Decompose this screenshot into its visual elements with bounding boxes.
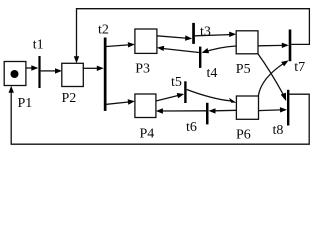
wire P5 to t8 (curved arc down) bbox=[258, 54, 284, 96]
wire t7 feedback to P2 (top loop) bbox=[77, 9, 310, 58]
transition t2 bbox=[104, 38, 107, 111]
svg-text:t8: t8 bbox=[273, 123, 284, 138]
svg-text:t2: t2 bbox=[98, 22, 109, 37]
wire P2 to t2 bbox=[83, 67, 98, 69]
wire P5 to t7 bbox=[258, 44, 283, 46]
wire P3 to t3 bbox=[157, 36, 186, 38]
transition t1 bbox=[38, 56, 40, 88]
svg-text:t3: t3 bbox=[200, 24, 211, 39]
wire t2 to P4 bbox=[107, 102, 129, 104]
wire t3 to P5 bbox=[195, 35, 230, 36]
wire P6 to t7 (curved arc up) bbox=[258, 63, 285, 97]
transition t3 bbox=[192, 23, 195, 44]
svg-text:P6: P6 bbox=[236, 127, 251, 142]
wire P5 to t4 bbox=[203, 46, 236, 52]
place P6 bbox=[236, 96, 258, 119]
wire P6 to t8 bbox=[259, 109, 281, 112]
transition t7 bbox=[289, 30, 292, 62]
wire t2 to P3 bbox=[107, 45, 129, 47]
wire t8 feedback to P1 (bottom loop) bbox=[11, 92, 309, 144]
svg-text:P2: P2 bbox=[62, 91, 77, 106]
transition t5 bbox=[184, 81, 186, 103]
svg-text:t7: t7 bbox=[294, 60, 305, 75]
wire t4 to P3 bbox=[163, 49, 199, 53]
wire P1 to t1 bbox=[26, 67, 33, 69]
svg-text:t6: t6 bbox=[186, 120, 197, 135]
place P1 bbox=[4, 62, 26, 86]
wire P6 to t6 bbox=[215, 109, 237, 112]
wire t6 to P4 bbox=[162, 110, 207, 112]
svg-text:t4: t4 bbox=[207, 66, 218, 81]
place P2 bbox=[62, 63, 84, 86]
svg-text:t1: t1 bbox=[33, 37, 44, 52]
wire t5 to P6 bbox=[187, 90, 231, 101]
place P5 bbox=[236, 31, 258, 54]
svg-text:t5: t5 bbox=[171, 75, 182, 90]
svg-text:P1: P1 bbox=[18, 96, 33, 111]
svg-text:P5: P5 bbox=[236, 62, 251, 77]
transition t4 bbox=[199, 47, 201, 68]
place P3 bbox=[135, 29, 157, 53]
wire P4 to t5 bbox=[156, 96, 178, 102]
svg-text:P4: P4 bbox=[140, 127, 155, 142]
token in P1 bbox=[11, 70, 19, 78]
transition t6 bbox=[206, 103, 209, 125]
svg-text:P3: P3 bbox=[135, 62, 150, 77]
transition t8 bbox=[287, 90, 289, 126]
wire t1 to P2 bbox=[41, 70, 56, 72]
place P4 bbox=[135, 94, 156, 118]
